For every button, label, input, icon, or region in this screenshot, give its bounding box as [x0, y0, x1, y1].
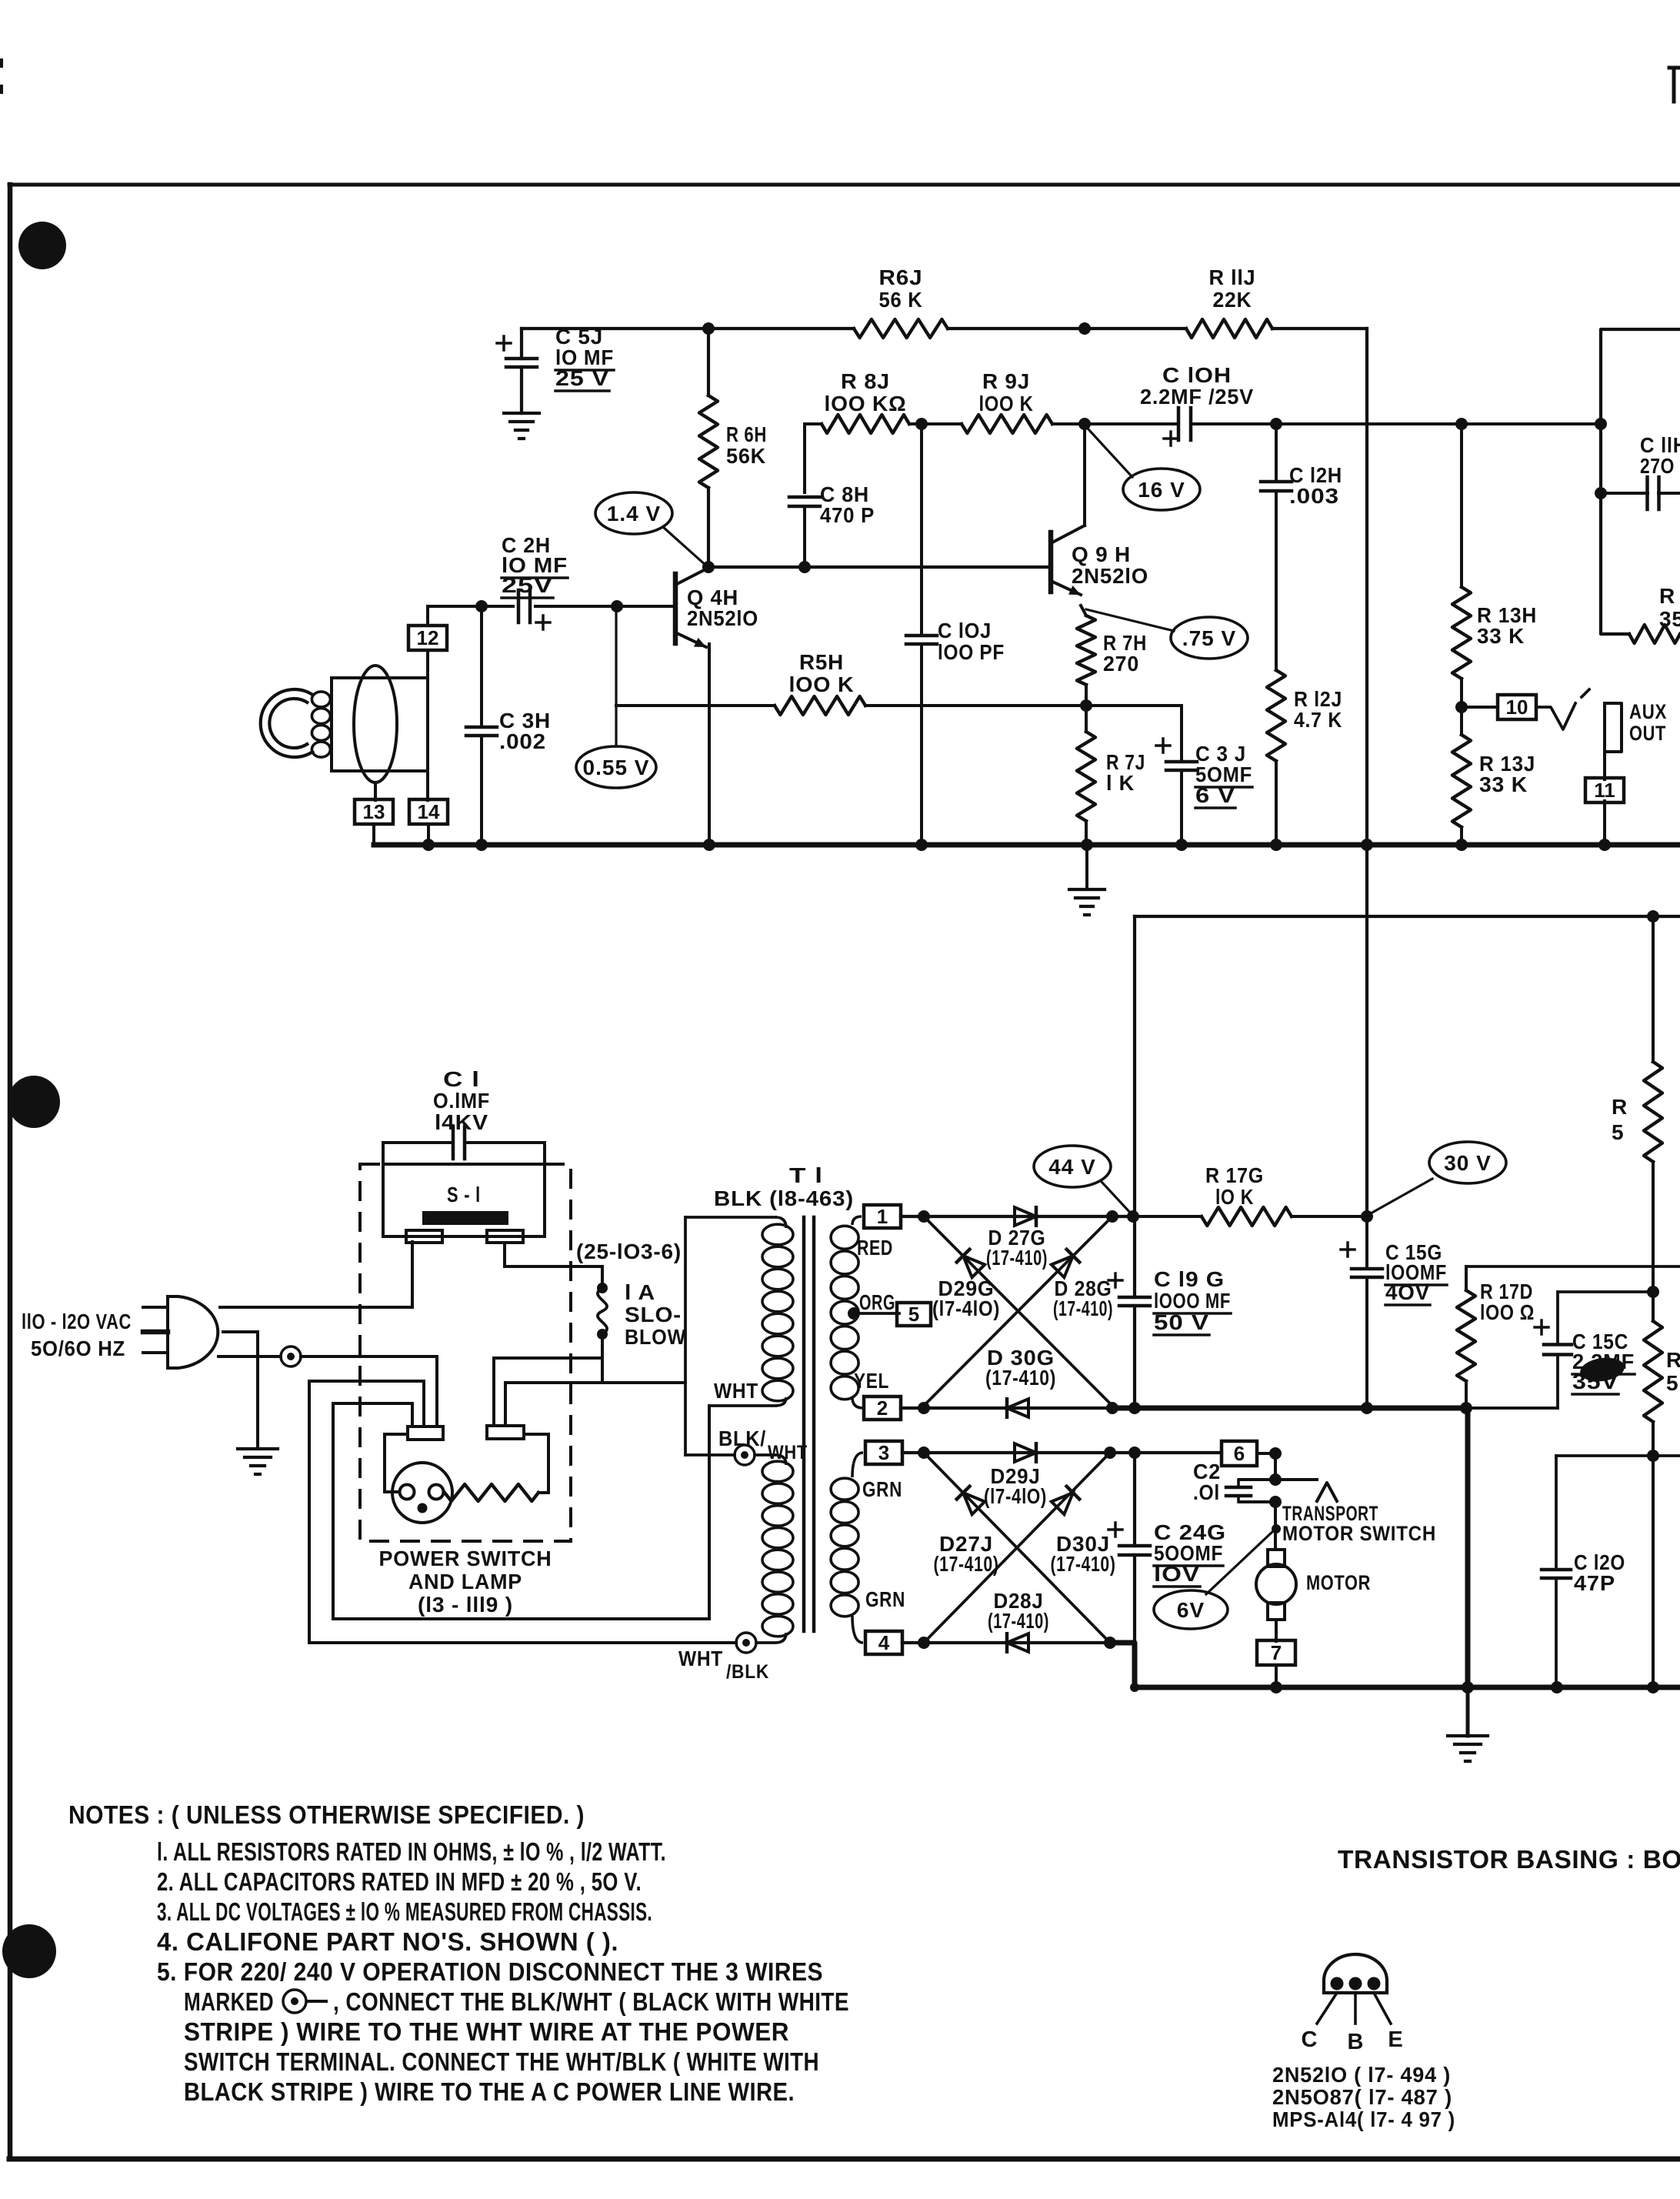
svg-text:2. ALL CAPACITORS RATED IN MF: 2. ALL CAPACITORS RATED IN MFD ± 20 % , … [157, 1867, 642, 1896]
wire WHT lead [709, 1404, 775, 1407]
diode D28J [1007, 1633, 1028, 1652]
node bridge1 plus node [1127, 1210, 1139, 1223]
label R17D 100ohm [1480, 1280, 1535, 1324]
microphone horseshoe magnet [261, 689, 314, 757]
capacitor C5J [497, 329, 537, 413]
svg-text:50 V: 50 V [1154, 1310, 1209, 1334]
svg-text:R: R [1612, 1095, 1628, 1119]
T1 primary winding upper [762, 1217, 793, 1406]
microphone transducer body [332, 678, 428, 771]
wire R5H line [616, 704, 1086, 707]
hole punch top [18, 222, 66, 269]
motor M [1256, 1550, 1296, 1641]
node supply/R6H junction [702, 322, 715, 335]
svg-text:POWER SWITCH: POWER SWITCH [379, 1547, 552, 1570]
label C120 47P [1574, 1550, 1625, 1595]
wire fuse branch 1765 [494, 1356, 602, 1360]
wire lamp left [385, 1434, 408, 1492]
label ORG [859, 1290, 895, 1314]
svg-text:(17-410): (17-410) [1053, 1296, 1113, 1320]
node bridge1 in1 [918, 1210, 930, 1223]
wire plug hot [220, 1242, 412, 1307]
label D28G [1053, 1276, 1113, 1320]
wire right column mid [1652, 1162, 1655, 1321]
svg-text:5. FOR 220/ 240 V OPERATION: 5. FOR 220/ 240 V OPERATION DISCONNECT T… [157, 1957, 823, 1986]
resistor R7H [1077, 606, 1095, 706]
label R12J 4.7K [1294, 687, 1342, 732]
svg-text:STRIPE ) WIRE TO THE WH: STRIPE ) WIRE TO THE WHT WIRE AT THE POW… [184, 2017, 789, 2046]
wire plug neutral [218, 1356, 437, 1426]
node rail/C3J [1175, 839, 1188, 851]
wire box12 to transducer [426, 650, 429, 678]
label D30J [1051, 1532, 1116, 1576]
earth ground motor [1448, 1736, 1488, 1761]
svg-text:56K: 56K [726, 444, 766, 468]
node bridge2 out-top [1104, 1447, 1116, 1459]
node supply/R11J junction [1078, 322, 1091, 335]
svg-text:11: 11 [1594, 779, 1615, 802]
label AUX OUT [1629, 700, 1667, 745]
svg-text:RED: RED [857, 1236, 893, 1260]
note 2 [157, 1867, 642, 1896]
transistor Q9H [1051, 526, 1085, 595]
label C15C 2.2MF 35V [1572, 1330, 1635, 1394]
callout 30 V [1371, 1142, 1506, 1213]
svg-text:(17-410): (17-410) [985, 1366, 1056, 1390]
terminal box 3 [865, 1441, 902, 1464]
node box/C10H rail [1595, 418, 1607, 430]
node bridge1 out-top [1106, 1210, 1118, 1223]
svg-text:S - l: S - l [447, 1183, 481, 1206]
resistor R11J [1186, 319, 1272, 338]
lamp terminal right [487, 1426, 524, 1439]
svg-text:1: 1 [877, 1205, 888, 1228]
svg-text:470 P: 470 P [820, 503, 875, 527]
resistor R13J [1452, 707, 1471, 843]
label C1 0.1MF 14KV [433, 1067, 490, 1134]
node box/C11H [1595, 487, 1607, 499]
svg-text:5: 5 [908, 1303, 919, 1326]
wire y1646 line [1466, 1265, 1680, 1268]
svg-text:R5H: R5H [799, 650, 844, 674]
svg-text:4: 4 [878, 1631, 890, 1654]
diode D27G [1015, 1207, 1036, 1226]
label C11H 270 [1640, 433, 1680, 478]
svg-text:lOO K: lOO K [789, 672, 855, 696]
svg-text:BLK (l8-463): BLK (l8-463) [714, 1186, 854, 1210]
svg-text:, CONNECT THE BLK/WHT (: , CONNECT THE BLK/WHT ( BLACK WITH WHITE [333, 1987, 849, 2016]
terminal box 1 [864, 1205, 901, 1228]
terminal box 11 [1585, 778, 1624, 803]
svg-text:(l7-4lO): (l7-4lO) [932, 1296, 1000, 1320]
label T1 [789, 1163, 823, 1187]
svg-text:R: R [1666, 1348, 1680, 1372]
wire box13 to ground rail [372, 824, 375, 843]
note marker grommet [283, 1990, 326, 2013]
svg-text:5: 5 [1666, 1371, 1678, 1395]
capacitor C10J [906, 424, 937, 843]
label R5 cut B [1666, 1348, 1680, 1395]
wire right tab riser B [504, 1383, 507, 1426]
node box6 out [1269, 1447, 1282, 1460]
label D29G [932, 1276, 1000, 1320]
capacitor C120 [1542, 1456, 1571, 1687]
T1 core [804, 1217, 814, 1631]
microphone coil bumps [312, 692, 330, 757]
svg-text:(l7-4lO): (l7-4lO) [984, 1484, 1047, 1508]
label D27J [934, 1532, 999, 1576]
wire bridge2 diag A [924, 1453, 1110, 1643]
wire long vertical feed [1365, 329, 1368, 1213]
svg-text:E: E [1388, 2027, 1402, 2052]
label R17G 10K [1205, 1163, 1264, 1209]
svg-text:AND LAMP: AND LAMP [408, 1570, 522, 1593]
label R7J 1K [1106, 750, 1145, 795]
node bridge1 in2 [918, 1402, 930, 1414]
label R5 cut A [1612, 1095, 1628, 1144]
fuse 1A slo-blow [597, 1283, 608, 1383]
svg-text:T l: T l [789, 1163, 823, 1187]
node switch bottom [1269, 1496, 1282, 1508]
label C3J 50MF 6V [1195, 742, 1252, 808]
wire bridge1 diag B [924, 1216, 1112, 1406]
svg-text:16 V: 16 V [1138, 478, 1185, 502]
wire common thin ext [1468, 1406, 1558, 1410]
transport motor switch [1240, 1480, 1337, 1502]
callout 44 V [1034, 1146, 1132, 1214]
label C10J 100PF [938, 619, 1005, 664]
callout 16 V [1088, 429, 1200, 510]
node C19G bottom [1128, 1402, 1141, 1414]
svg-text:6: 6 [1234, 1442, 1245, 1465]
terminal box 7 [1257, 1640, 1295, 1665]
label R13H 33K [1477, 603, 1537, 648]
wire switch feed [1274, 1453, 1277, 1480]
label R6J 56K [879, 265, 923, 312]
label R8J 100KOhm [825, 369, 907, 415]
node rail/R12J [1270, 839, 1282, 851]
wire WHT/BLK lead [756, 1641, 775, 1644]
capacitor C3H [466, 606, 497, 843]
T1 secondary winding lower [831, 1453, 863, 1643]
terminal box 6 [1222, 1441, 1257, 1466]
wire bridge1 diag A [924, 1216, 1112, 1406]
wire y1191 line [1135, 915, 1680, 918]
node rail/AUX [1598, 839, 1611, 851]
svg-text:5O/6O HZ: 5O/6O HZ [31, 1336, 125, 1360]
node motor rail C120 [1551, 1681, 1563, 1693]
svg-text:C l9 G: C l9 G [1154, 1267, 1225, 1291]
resistor R12J [1267, 670, 1285, 843]
svg-text:35: 35 [1659, 607, 1680, 631]
terminal box 12 [408, 626, 447, 650]
wire bridge2 top rail [902, 1451, 1222, 1454]
node 30V junction [1361, 1210, 1373, 1223]
terminal box 5 [897, 1303, 931, 1326]
svg-text:30 V: 30 V [1444, 1151, 1492, 1175]
wire box14 to ground rail [427, 824, 430, 843]
wire BLK/WHT lead [685, 1453, 775, 1457]
terminal box 2 [864, 1396, 901, 1420]
diode D29G [957, 1250, 985, 1277]
wire box11 to rail [1603, 801, 1606, 843]
label 2N5210 17-494 [1272, 2063, 1451, 2087]
label C10H [1140, 363, 1254, 409]
T1 secondary winding upper [831, 1216, 863, 1408]
S-1 actuator bar [422, 1211, 508, 1225]
svg-text:6 V: 6 V [1195, 783, 1235, 807]
diode D29J [1015, 1443, 1036, 1462]
svg-text:2N5O87( l7- 487 ): 2N5O87( l7- 487 ) [1272, 2085, 1452, 2109]
svg-text:MPS-Al4( l7- 4 97 ): MPS-Al4( l7- 4 97 ) [1272, 2107, 1455, 2131]
wire plug ground lead [223, 1332, 258, 1449]
svg-text:lOO PF: lOO PF [938, 640, 1005, 664]
svg-text:(17-410): (17-410) [934, 1552, 999, 1576]
top-right box outline [1601, 329, 1680, 634]
wire S1 to fuse [505, 1243, 602, 1288]
label C3H .002 [499, 709, 551, 753]
svg-text:2N52lO: 2N52lO [687, 606, 758, 630]
lamp terminal left [408, 1427, 443, 1440]
svg-text:6V: 6V [1177, 1598, 1205, 1622]
svg-text:SWITCH TERMINAL. CONNECT: SWITCH TERMINAL. CONNECT THE WHT/BLK ( W… [184, 2047, 819, 2076]
svg-text:(l3 - lll9 ): (l3 - lll9 ) [418, 1593, 513, 1617]
wire bridge2 bottom rail [902, 1641, 1112, 1644]
svg-text:C: C [1302, 2027, 1318, 2052]
wire terminal 12 riser [426, 606, 429, 626]
resistor R13H [1452, 424, 1471, 707]
node R13H top [1455, 418, 1468, 430]
svg-text:R 8J: R 8J [841, 369, 890, 393]
terminal box 13 [355, 799, 393, 824]
node bridge2 in4 [918, 1637, 930, 1649]
node rail/box14 [422, 839, 435, 851]
label WHT/BLK [678, 1647, 769, 1683]
node rail/Q4H emitter [703, 839, 715, 851]
wire ORG tap [854, 1312, 899, 1315]
svg-text:SLO-: SLO- [625, 1303, 682, 1326]
capacitor C15C [1466, 1320, 1572, 1408]
svg-text:4.7 K: 4.7 K [1294, 708, 1342, 732]
svg-text:R: R [1659, 584, 1675, 608]
label D28J [988, 1589, 1049, 1633]
svg-text:lOOO MF: lOOO MF [1154, 1289, 1231, 1313]
wire Q4H collector rail [708, 566, 1051, 569]
wire main ground rail [374, 843, 1680, 848]
svg-text:R 17G: R 17G [1205, 1163, 1264, 1187]
svg-text:4. CALIFONE PART NO'S. SHOWN: 4. CALIFONE PART NO'S. SHOWN ( ). [157, 1927, 618, 1956]
callout 1.4 V [595, 492, 707, 566]
note 5 line 5 [184, 2077, 795, 2106]
wire inner loop WHT [333, 1403, 709, 1619]
node C3H top [475, 600, 488, 612]
node C12H top [1270, 418, 1282, 430]
svg-text:(25-lO3-6): (25-lO3-6) [576, 1240, 682, 1263]
svg-text:2N52lO ( l7- 494 ): 2N52lO ( l7- 494 ) [1272, 2063, 1451, 2087]
svg-text:27O: 27O [1640, 454, 1675, 478]
T1 primary winding lower [762, 1455, 793, 1643]
resistor R8J [822, 415, 909, 433]
svg-text:TRANSISTOR BASING : BO: TRANSISTOR BASING : BO [1338, 1845, 1680, 1874]
label S-1 [447, 1183, 481, 1206]
wire box6 out [1257, 1452, 1275, 1455]
capacitor C2H [518, 590, 550, 629]
terminal box 14 [409, 799, 448, 824]
svg-text:33 K: 33 K [1477, 624, 1525, 648]
dashed assembly box [360, 1164, 571, 1541]
transistor Q4H [617, 568, 708, 647]
ground below C5J [504, 413, 539, 439]
ground symbol below rail [1069, 845, 1105, 915]
label R9J 100K [979, 369, 1034, 415]
node R9J/C10H junction [1078, 418, 1091, 430]
ac plug body [168, 1296, 218, 1368]
edge specks [0, 58, 3, 94]
grommet neutral [281, 1346, 301, 1366]
wire Q9H collector [1083, 424, 1086, 526]
svg-text:BLK/: BLK/ [718, 1427, 766, 1450]
label C B E [1302, 2027, 1403, 2054]
wire left tab riser inner [333, 1403, 412, 1427]
svg-text:25V: 25V [502, 573, 553, 597]
hole punch middle [8, 1076, 60, 1128]
capacitor C12H [1261, 424, 1292, 670]
node R13 junction [1455, 701, 1468, 713]
resistor R17G [1133, 1207, 1367, 1226]
svg-text:OUT: OUT [1629, 722, 1666, 745]
svg-text:lOV: lOV [1154, 1562, 1200, 1586]
capacitor C19G [1108, 916, 1150, 1408]
svg-text:C lOH: C lOH [1162, 363, 1232, 387]
switch S-1 body [383, 1164, 545, 1236]
cut-off glyph top right [1669, 68, 1680, 102]
node rail/C3H [475, 839, 488, 851]
svg-text:BLOW: BLOW [625, 1325, 686, 1349]
capacitor C15G [1341, 1216, 1382, 1408]
svg-text:MARKED: MARKED [184, 1987, 274, 2016]
wire bridge1 bottom rail [901, 1406, 1112, 1410]
label C15G 100MF 40V [1385, 1240, 1447, 1305]
svg-text:47P: 47P [1574, 1571, 1615, 1595]
notes header [68, 1800, 585, 1829]
svg-text:.002: .002 [499, 729, 546, 753]
svg-text:NOTES : ( UNLESS OTHERWISE: NOTES : ( UNLESS OTHERWISE SPECIFIED. ) [68, 1800, 585, 1829]
label 110-120 VAC [22, 1310, 132, 1333]
node switch top [1269, 1473, 1282, 1486]
plug prong bottom [143, 1351, 168, 1354]
svg-text:270: 270 [1103, 652, 1139, 676]
svg-text:R6J: R6J [879, 265, 923, 289]
note 3 [157, 1897, 652, 1926]
capacitor C1 [383, 1126, 545, 1164]
diode D27J [957, 1487, 985, 1514]
svg-text:(17-410): (17-410) [988, 1609, 1049, 1633]
callout .75 V [1086, 609, 1248, 659]
label D29J [984, 1464, 1047, 1508]
svg-text:(17-410): (17-410) [1051, 1552, 1116, 1576]
svg-text:22K: 22K [1213, 288, 1252, 312]
callout 6V [1154, 1531, 1273, 1629]
svg-text:7: 7 [1271, 1641, 1282, 1664]
label D27G [986, 1226, 1048, 1270]
node R17D bottom [1460, 1402, 1472, 1414]
svg-text:33 K: 33 K [1479, 772, 1528, 796]
node common/D30G end [1106, 1402, 1118, 1414]
svg-text:l K: l K [1106, 771, 1135, 795]
label BLK/WHT [718, 1427, 808, 1463]
svg-text:WHT: WHT [714, 1379, 758, 1403]
svg-text:BLACK STRIPE ) WIRE TO T: BLACK STRIPE ) WIRE TO THE A C POWER LIN… [184, 2077, 795, 2106]
svg-text:.003: .003 [1289, 484, 1339, 508]
node motor rail C24G [1130, 1683, 1139, 1692]
wire outer loop WHT/BLK [309, 1381, 736, 1643]
earth ground plug [238, 1449, 278, 1474]
svg-text:56 K: 56 K [879, 288, 923, 312]
plug prong mid [143, 1330, 168, 1335]
label R7H 270 [1103, 631, 1147, 676]
label C5J 10MF 25V [555, 325, 614, 391]
plug prong top [143, 1306, 168, 1309]
wire lamp right [524, 1434, 548, 1493]
note 5 line 4 [184, 2047, 819, 2076]
wire right column low [1652, 1422, 1655, 1685]
svg-text:14: 14 [418, 800, 440, 823]
node rail/R13J [1455, 839, 1468, 851]
label WHT [714, 1379, 758, 1403]
note 1 [157, 1837, 666, 1866]
svg-text:25 V: 25 V [555, 366, 609, 390]
node Q4H collector [702, 561, 715, 573]
label D30G [985, 1346, 1056, 1390]
node right/C15C branch [1647, 1286, 1659, 1298]
node bridge2 in3 [918, 1447, 930, 1459]
wire top supply rail [522, 327, 1367, 330]
wire box10 tail [1536, 689, 1589, 729]
power lamp circle [392, 1463, 452, 1523]
svg-text:l4KV: l4KV [435, 1110, 488, 1134]
diode D30J [1052, 1487, 1079, 1514]
svg-text:2: 2 [877, 1396, 888, 1420]
capacitor C10H [1164, 408, 1191, 445]
resistor R top-right cut [1629, 625, 1680, 643]
label 25-103-6 [576, 1240, 682, 1263]
label GRN lower [865, 1587, 905, 1611]
node motor rail motor [1270, 1681, 1282, 1693]
note 5 line 2 [184, 1987, 849, 2016]
node R8J/R9J junction [915, 418, 928, 430]
note 5 line 3 [184, 2017, 789, 2046]
svg-text:l A: l A [625, 1280, 655, 1304]
node motor rail gndvert [1462, 1681, 1474, 1693]
node rail/feed vertical [1361, 839, 1373, 851]
label C12H .003 [1289, 463, 1342, 508]
svg-text:lO K: lO K [1215, 1185, 1254, 1209]
node C15G bottom [1361, 1402, 1373, 1414]
label R 35 cut [1659, 584, 1680, 631]
node 6V leader point [1272, 1524, 1281, 1533]
svg-text:ORG: ORG [859, 1290, 895, 1314]
node R7H/R7J junction [1080, 699, 1092, 712]
note 5 line 1 [157, 1957, 823, 1986]
svg-text:12: 12 [417, 626, 439, 649]
svg-text:lOO Ω: lOO Ω [1480, 1300, 1535, 1324]
label BLK 18-463 [714, 1186, 854, 1210]
wire bridge2 diag B [924, 1453, 1110, 1643]
label MPS-A14 17-497 [1272, 2107, 1455, 2131]
svg-text:C lOJ: C lOJ [938, 619, 992, 642]
svg-text:MOTOR SWITCH: MOTOR SWITCH [1282, 1522, 1436, 1545]
S-1 terminal left [406, 1230, 442, 1243]
